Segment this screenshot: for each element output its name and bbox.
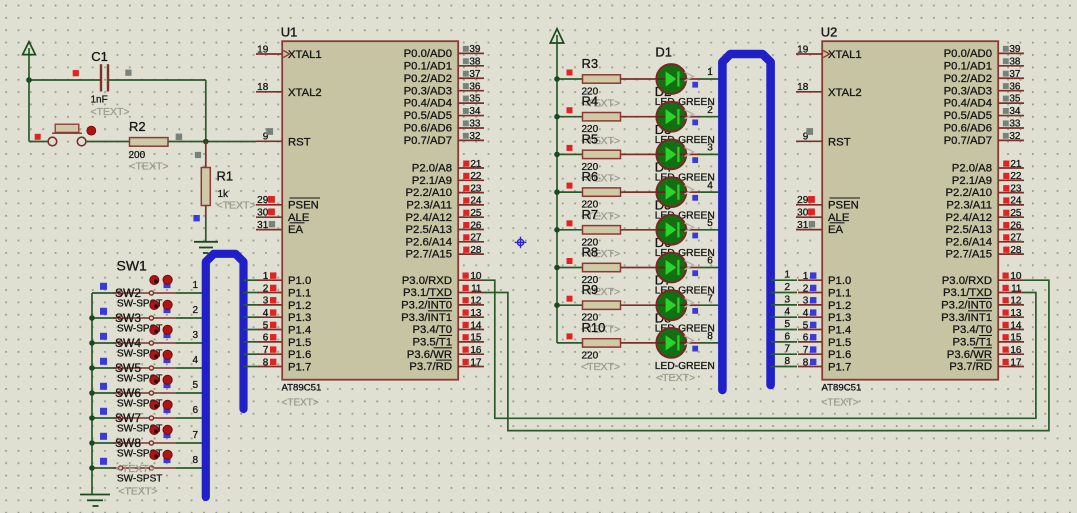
svg-text:3: 3 [803, 296, 809, 307]
svg-text:PSEN: PSEN [828, 199, 859, 211]
svg-text:P0.4/AD4: P0.4/AD4 [404, 98, 452, 110]
svg-text:1: 1 [803, 271, 809, 282]
resistor R7 (220) [554, 207, 620, 260]
svg-text:32: 32 [469, 131, 481, 142]
wire C1 right to corner and down to RST node [108, 80, 206, 142]
svg-text:8: 8 [784, 356, 790, 367]
svg-text:37: 37 [469, 69, 481, 80]
svg-text:<TEXT>: <TEXT> [581, 361, 620, 373]
svg-text:P3.5/T1: P3.5/T1 [952, 336, 992, 348]
svg-text:P1.2: P1.2 [288, 300, 311, 312]
svg-text:P2.2/A10: P2.2/A10 [406, 187, 452, 199]
svg-text:P1.7: P1.7 [828, 362, 851, 374]
svg-text:R5: R5 [582, 131, 599, 146]
svg-text:38: 38 [1009, 56, 1021, 67]
wire power to C1 and button [29, 80, 100, 142]
svg-text:2: 2 [784, 282, 790, 293]
svg-text:P3.1/TXD: P3.1/TXD [403, 287, 452, 299]
bus D1..D8 to U2 P1 (blue loop) [722, 54, 770, 390]
RST node junction [203, 139, 209, 145]
svg-text:U2: U2 [821, 25, 838, 40]
svg-text:29: 29 [257, 195, 269, 206]
svg-text:P3.3/INT1: P3.3/INT1 [401, 312, 452, 324]
switch SW7 (SW-SPST) [89, 425, 206, 459]
svg-text:ALE: ALE [828, 212, 850, 224]
LED D1 (LED-GREEN) [621, 45, 719, 109]
svg-text:30: 30 [257, 208, 269, 219]
svg-text:P2.3/A11: P2.3/A11 [406, 200, 452, 212]
svg-text:2: 2 [707, 105, 713, 116]
svg-text:P2.0/A8: P2.0/A8 [952, 163, 992, 175]
svg-text:<TEXT>: <TEXT> [822, 398, 859, 409]
svg-text:P0.6/AD6: P0.6/AD6 [404, 123, 452, 135]
svg-text:<TEXT>: <TEXT> [282, 398, 319, 409]
svg-text:<TEXT>: <TEXT> [118, 486, 157, 498]
svg-text:P2.6/A14: P2.6/A14 [946, 236, 992, 248]
ground (below switch bank) [80, 495, 110, 507]
svg-text:14: 14 [470, 320, 482, 331]
svg-text:P2.7/A15: P2.7/A15 [946, 249, 992, 261]
svg-text:P1.3: P1.3 [828, 312, 851, 324]
svg-text:P0.1/AD1: P0.1/AD1 [404, 60, 452, 72]
svg-text:7: 7 [707, 293, 713, 304]
svg-text:P1.0: P1.0 [828, 275, 851, 287]
svg-text:29: 29 [797, 195, 809, 206]
ground (below R1) [194, 242, 218, 253]
svg-text:P1.6: P1.6 [828, 349, 851, 361]
svg-text:31: 31 [797, 220, 809, 231]
svg-text:P3.2/INT0: P3.2/INT0 [941, 299, 992, 311]
svg-text:15: 15 [470, 333, 482, 344]
svg-text:EA: EA [828, 224, 844, 236]
svg-text:8: 8 [263, 357, 269, 368]
switch SW4 (SW-SPST) [89, 350, 206, 384]
origin crosshair marker [515, 237, 527, 249]
svg-text:R4: R4 [582, 94, 599, 109]
svg-text:P3.2/INT0: P3.2/INT0 [401, 299, 452, 311]
svg-text:XTAL1: XTAL1 [828, 49, 862, 61]
svg-text:17: 17 [470, 357, 482, 368]
svg-text:R1: R1 [217, 169, 234, 184]
svg-text:P1.6: P1.6 [288, 349, 311, 361]
svg-text:2: 2 [263, 283, 269, 294]
svg-text:P0.5/AD5: P0.5/AD5 [404, 110, 452, 122]
svg-text:P3.5/T1: P3.5/T1 [412, 336, 452, 348]
switch SW2 (SW-SPST) [89, 300, 206, 334]
svg-text:1k: 1k [218, 189, 230, 200]
svg-text:<TEXT>: <TEXT> [91, 106, 130, 118]
svg-text:SW-SPST: SW-SPST [117, 474, 162, 485]
svg-text:P1.5: P1.5 [288, 337, 311, 349]
svg-text:R10: R10 [582, 320, 606, 335]
resistor R2 [129, 119, 183, 173]
svg-text:32: 32 [1009, 131, 1021, 142]
svg-text:P2.1/A9: P2.1/A9 [952, 175, 992, 187]
svg-text:1nF: 1nF [91, 95, 108, 106]
svg-text:24: 24 [1010, 196, 1022, 207]
svg-text:P1.1: P1.1 [828, 288, 851, 300]
switch bank label SW1 [117, 258, 148, 274]
svg-text:P1.7: P1.7 [288, 362, 311, 374]
svg-text:25: 25 [1010, 208, 1022, 219]
switch SW6 (SW-SPST) [89, 400, 206, 434]
svg-text:26: 26 [470, 220, 482, 231]
svg-text:7: 7 [192, 430, 198, 441]
svg-text:19: 19 [257, 44, 269, 55]
svg-text:P1.1: P1.1 [288, 288, 311, 300]
svg-text:P0.0/AD0: P0.0/AD0 [944, 48, 992, 60]
svg-text:28: 28 [1010, 245, 1022, 256]
bus SW1..SW8 to U1 P1 (blue loop) [206, 254, 244, 497]
svg-text:P1.3: P1.3 [288, 312, 311, 324]
SW rail wire (left vertical) [91, 293, 93, 494]
wire U1 P3.1/TXD to U2 P3.0/RXD [484, 280, 1049, 430]
svg-text:10: 10 [1010, 271, 1022, 282]
resistor R4 (220) [554, 94, 620, 147]
svg-text:<TEXT>: <TEXT> [656, 372, 695, 384]
svg-text:SW1: SW1 [117, 258, 148, 274]
wire R1 to ground [205, 218, 207, 242]
svg-text:4: 4 [192, 355, 198, 366]
svg-text:XTAL2: XTAL2 [828, 87, 862, 99]
svg-text:7: 7 [803, 345, 809, 356]
resistor R9 (220) [554, 282, 620, 335]
svg-text:R2: R2 [129, 119, 146, 134]
svg-text:33: 33 [1009, 119, 1021, 130]
svg-text:2: 2 [803, 283, 809, 294]
svg-text:5: 5 [707, 218, 713, 229]
svg-text:<TEXT>: <TEXT> [217, 200, 256, 212]
svg-text:34: 34 [1009, 106, 1021, 117]
svg-text:27: 27 [470, 233, 482, 244]
switch SW3 (SW-SPST) [89, 325, 206, 359]
svg-text:2: 2 [192, 305, 198, 316]
svg-text:P2.4/A12: P2.4/A12 [406, 212, 452, 224]
resistor R8 (220) [554, 245, 620, 298]
svg-text:P3.4/T0: P3.4/T0 [952, 324, 992, 336]
svg-text:5: 5 [803, 320, 809, 331]
svg-text:6: 6 [784, 331, 790, 342]
svg-text:XTAL2: XTAL2 [288, 87, 322, 99]
svg-text:R9: R9 [582, 282, 599, 297]
svg-text:P2.6/A14: P2.6/A14 [406, 236, 452, 248]
svg-text:3: 3 [263, 296, 269, 307]
svg-text:6: 6 [803, 333, 809, 344]
svg-text:LED-GREEN: LED-GREEN [655, 361, 715, 372]
svg-text:P3.7/RD: P3.7/RD [949, 361, 992, 373]
svg-text:PSEN: PSEN [288, 199, 319, 211]
svg-text:RST: RST [288, 136, 311, 148]
svg-text:R6: R6 [582, 169, 599, 184]
svg-text:18: 18 [257, 82, 269, 93]
wire R2 to RST node and on to U1 RST [168, 141, 256, 143]
svg-text:30: 30 [797, 208, 809, 219]
svg-text:P1.5: P1.5 [828, 337, 851, 349]
svg-text:39: 39 [1009, 44, 1021, 55]
svg-text:P0.0/AD0: P0.0/AD0 [404, 48, 452, 60]
AT89C51 microcontroller U1 [256, 25, 484, 409]
svg-text:8: 8 [707, 331, 713, 342]
svg-text:P3.1/TXD: P3.1/TXD [943, 287, 992, 299]
svg-text:AT89C51: AT89C51 [822, 383, 862, 394]
svg-text:23: 23 [1010, 183, 1022, 194]
svg-text:28: 28 [470, 245, 482, 256]
svg-text:22: 22 [470, 171, 482, 182]
svg-text:220: 220 [582, 350, 599, 361]
svg-text:6: 6 [707, 256, 713, 267]
svg-text:37: 37 [1009, 69, 1021, 80]
svg-text:7: 7 [263, 345, 269, 356]
svg-text:4: 4 [707, 180, 713, 191]
svg-text:P1.0: P1.0 [288, 275, 311, 287]
resistor R5 (220) [554, 131, 620, 184]
LED reference labels D2..D8 (partly hidden) [655, 84, 672, 325]
svg-text:5: 5 [192, 380, 198, 391]
resistor R3 (220) [554, 56, 620, 109]
capacitor C1 [73, 49, 132, 118]
svg-text:36: 36 [469, 81, 481, 92]
svg-text:25: 25 [470, 208, 482, 219]
svg-text:13: 13 [1010, 308, 1022, 319]
svg-text:RST: RST [828, 136, 851, 148]
svg-text:P2.5/A13: P2.5/A13 [946, 224, 992, 236]
LED D5 (LED-GREEN) [621, 215, 719, 259]
svg-text:8: 8 [803, 357, 809, 368]
switch SW5 (SW-SPST) [89, 375, 206, 409]
svg-text:P0.7/AD7: P0.7/AD7 [944, 135, 992, 147]
svg-text:23: 23 [470, 183, 482, 194]
svg-text:11: 11 [471, 283, 482, 294]
power symbol (middle) [550, 29, 563, 79]
wire button to R2 [86, 141, 130, 143]
svg-text:D1: D1 [655, 45, 672, 60]
svg-text:R7: R7 [582, 207, 599, 222]
svg-text:38: 38 [469, 56, 481, 67]
svg-text:17: 17 [1010, 357, 1022, 368]
wires bus to U2 P1.0-P1.7 with net numbers [771, 270, 797, 367]
svg-text:16: 16 [1010, 345, 1022, 356]
svg-text:P3.4/T0: P3.4/T0 [412, 324, 452, 336]
svg-text:16: 16 [470, 345, 482, 356]
svg-text:P2.7/A15: P2.7/A15 [406, 249, 452, 261]
TEXT label under LED D8 [656, 372, 695, 384]
node A junction [26, 77, 32, 83]
svg-text:1: 1 [263, 271, 269, 282]
svg-text:33: 33 [469, 119, 481, 130]
svg-text:P2.5/A13: P2.5/A13 [406, 224, 452, 236]
svg-text:P2.4/A12: P2.4/A12 [946, 212, 992, 224]
svg-text:21: 21 [1010, 159, 1022, 170]
svg-text:27: 27 [1010, 233, 1022, 244]
switch SW8 (SW-SPST) [89, 450, 206, 484]
wires bus to U1 P1.0-P1.7 [244, 280, 260, 366]
svg-text:R8: R8 [582, 245, 599, 260]
svg-text:3: 3 [192, 330, 198, 341]
svg-text:200: 200 [129, 150, 146, 161]
LED D4 (LED-GREEN) [621, 177, 719, 221]
svg-text:P0.2/AD2: P0.2/AD2 [404, 73, 452, 85]
svg-text:21: 21 [470, 159, 482, 170]
svg-text:39: 39 [469, 44, 481, 55]
svg-text:5: 5 [263, 320, 269, 331]
svg-text:6: 6 [192, 405, 198, 416]
svg-text:P1.2: P1.2 [828, 300, 851, 312]
AT89C51 microcontroller U2 [796, 25, 1024, 409]
svg-text:P2.3/A11: P2.3/A11 [946, 200, 992, 212]
svg-text:12: 12 [1010, 296, 1022, 307]
svg-text:P3.6/WR: P3.6/WR [407, 349, 452, 361]
svg-text:P2.0/A8: P2.0/A8 [412, 163, 452, 175]
LED D8 (LED-GREEN) [621, 328, 719, 372]
svg-text:11: 11 [1011, 283, 1022, 294]
resistor R1 [193, 142, 255, 222]
svg-text:P0.4/AD4: P0.4/AD4 [944, 98, 992, 110]
LED D3 (LED-GREEN) [621, 140, 719, 184]
svg-text:5: 5 [784, 319, 790, 330]
svg-text:6: 6 [263, 333, 269, 344]
svg-text:P0.3/AD3: P0.3/AD3 [944, 85, 992, 97]
svg-text:P0.7/AD7: P0.7/AD7 [404, 135, 452, 147]
svg-text:P0.5/AD5: P0.5/AD5 [944, 110, 992, 122]
svg-text:U1: U1 [281, 25, 298, 40]
svg-text:P3.7/RD: P3.7/RD [409, 361, 452, 373]
svg-text:R3: R3 [582, 56, 599, 71]
wire U1 P3.0/RXD to U2 P3.1/TXD [484, 280, 1036, 418]
resistor R10 (220) [557, 320, 621, 373]
svg-text:10: 10 [470, 271, 482, 282]
TEXT label under SW8 [118, 486, 157, 498]
LED supply rail wire [556, 79, 558, 343]
svg-text:EA: EA [288, 224, 304, 236]
svg-text:4: 4 [263, 308, 269, 319]
svg-text:26: 26 [1010, 220, 1022, 231]
svg-text:<TEXT>: <TEXT> [129, 161, 168, 173]
svg-text:1: 1 [707, 67, 713, 78]
svg-text:15: 15 [1010, 333, 1022, 344]
svg-text:35: 35 [469, 94, 481, 105]
svg-text:P2.1/A9: P2.1/A9 [412, 175, 452, 187]
svg-text:XTAL1: XTAL1 [288, 49, 322, 61]
LED D7 (LED-GREEN) [621, 290, 719, 334]
svg-text:35: 35 [1009, 94, 1021, 105]
power symbol (left) [23, 42, 36, 80]
svg-text:4: 4 [803, 308, 809, 319]
svg-text:3: 3 [707, 143, 713, 154]
svg-text:P2.2/A10: P2.2/A10 [946, 187, 992, 199]
svg-text:P1.4: P1.4 [828, 325, 851, 337]
svg-text:P0.3/AD3: P0.3/AD3 [404, 85, 452, 97]
svg-text:P0.6/AD6: P0.6/AD6 [944, 123, 992, 135]
svg-text:19: 19 [797, 44, 809, 55]
svg-text:14: 14 [1010, 320, 1022, 331]
svg-text:AT89C51: AT89C51 [282, 383, 322, 394]
resistor R6 (220) [554, 169, 620, 222]
svg-text:P3.0/RXD: P3.0/RXD [942, 275, 992, 287]
svg-text:1: 1 [784, 270, 790, 281]
svg-text:C1: C1 [91, 49, 108, 64]
svg-text:P3.3/INT1: P3.3/INT1 [941, 312, 992, 324]
svg-text:4: 4 [784, 307, 790, 318]
svg-text:34: 34 [469, 106, 481, 117]
svg-text:1: 1 [192, 280, 198, 291]
LED D2 (LED-GREEN) [621, 102, 719, 146]
switch SW1 (SW-SPST) [92, 275, 206, 309]
push button (reset) [35, 124, 96, 146]
svg-text:P0.2/AD2: P0.2/AD2 [944, 73, 992, 85]
svg-text:7: 7 [784, 344, 790, 355]
svg-text:P0.1/AD1: P0.1/AD1 [944, 60, 992, 72]
svg-text:13: 13 [470, 308, 482, 319]
svg-text:P3.0/RXD: P3.0/RXD [402, 275, 452, 287]
svg-text:P1.4: P1.4 [288, 325, 311, 337]
svg-text:36: 36 [1009, 81, 1021, 92]
LED D6 (LED-GREEN) [621, 253, 719, 297]
svg-text:22: 22 [1010, 171, 1022, 182]
svg-text:24: 24 [470, 196, 482, 207]
svg-text:8: 8 [192, 455, 198, 466]
svg-text:18: 18 [797, 82, 809, 93]
svg-text:P3.6/WR: P3.6/WR [947, 349, 992, 361]
svg-text:12: 12 [470, 296, 482, 307]
svg-text:31: 31 [257, 220, 269, 231]
svg-text:3: 3 [784, 294, 790, 305]
svg-text:ALE: ALE [288, 212, 310, 224]
